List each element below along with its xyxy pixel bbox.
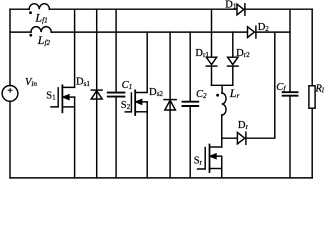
svg-text:Dr2: Dr2 [236,48,250,59]
svg-text:Rl: Rl [315,83,324,94]
svg-text:Lf2: Lf2 [37,33,51,47]
svg-text:Dr1: Dr1 [195,48,209,59]
svg-text:Vin: Vin [25,77,37,88]
svg-text:Dr: Dr [238,120,249,131]
svg-text:D1: D1 [225,0,237,11]
svg-text:Lr: Lr [229,86,240,100]
svg-text:Sr: Sr [194,155,203,166]
svg-text:Ds2: Ds2 [149,87,163,98]
svg-text:S2: S2 [121,100,131,111]
svg-text:Lf1: Lf1 [34,10,47,24]
svg-text:Cf: Cf [276,82,286,93]
svg-text:C1: C1 [122,80,133,91]
svg-text:C2: C2 [196,89,207,100]
svg-text:Ds1: Ds1 [76,77,90,88]
svg-text:D2: D2 [258,22,270,33]
svg-text:S1: S1 [46,90,56,101]
